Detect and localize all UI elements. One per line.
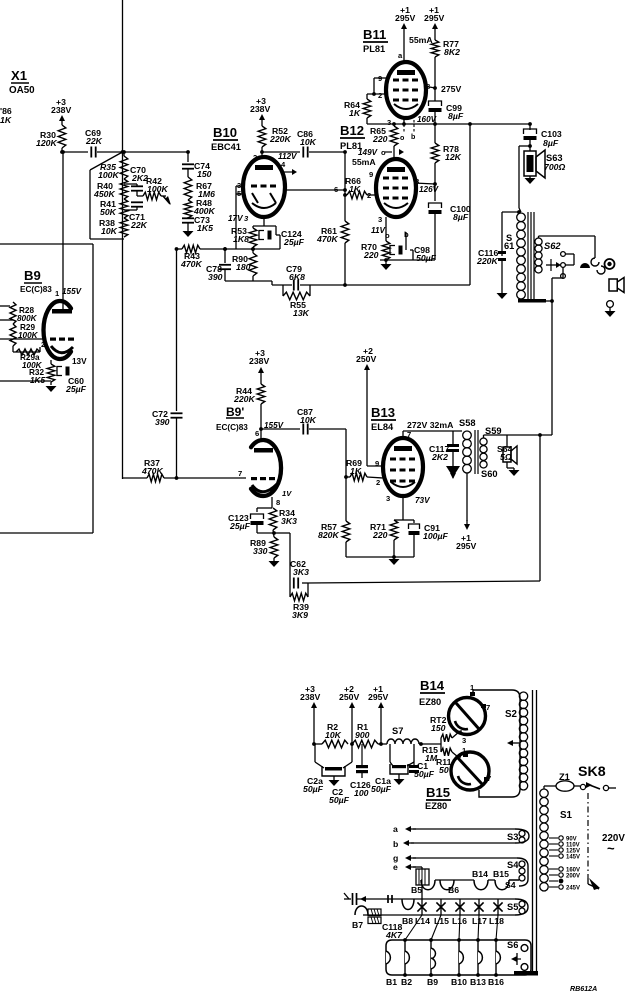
wire B9 plate to R30 node <box>61 150 65 310</box>
pin labels B13 <box>375 459 431 505</box>
svg-text:B13: B13 <box>470 977 486 987</box>
S62 contact bottom <box>561 274 566 279</box>
svg-text:8K2: 8K2 <box>444 47 460 57</box>
resistor R32 1K5 <box>29 364 55 385</box>
supply +3 238V at R30 <box>51 97 71 125</box>
svg-text:160V: 160V <box>417 115 438 124</box>
label 272V 32mA <box>407 420 454 430</box>
wire R37 to B9' pin 7 <box>164 477 246 479</box>
pin 8 and 1V labels <box>276 489 292 507</box>
labels B1 B2 B9 B10 B13 B16 <box>386 977 504 987</box>
wire hatched down <box>421 885 423 899</box>
wire R77 to 275V node <box>434 57 436 101</box>
resistor R44 220K <box>233 377 265 404</box>
coupling coils B5 B6 B14 B15 <box>411 869 519 895</box>
svg-text:b: b <box>393 839 398 849</box>
svg-text:X1: X1 <box>11 68 27 83</box>
svg-text:22K: 22K <box>85 136 103 146</box>
pentode B13 <box>383 438 423 496</box>
svg-text:B9': B9' <box>226 405 244 419</box>
wire to AVC bus corner <box>253 281 272 285</box>
speaker S63 700 ohm <box>524 150 565 178</box>
jack contact arcs <box>591 258 605 274</box>
svg-text:L15: L15 <box>434 916 449 926</box>
svg-text:B12: B12 <box>340 123 364 138</box>
svg-text:L18: L18 <box>489 916 504 926</box>
resistor R61 470K <box>316 221 349 244</box>
svg-text:B11: B11 <box>363 27 386 42</box>
svg-text:50µF: 50µF <box>414 769 435 779</box>
svg-text:EBC41: EBC41 <box>211 142 241 152</box>
wire R15 to B15 <box>458 756 461 758</box>
svg-text:6: 6 <box>255 429 259 438</box>
ground under R89 <box>269 558 280 567</box>
cathode ground rail B12 <box>380 258 435 262</box>
svg-text:3: 3 <box>378 215 382 224</box>
feedback wire to output transformer <box>308 435 540 583</box>
AVC bus wire <box>272 284 470 286</box>
wire pin6 to grid line B12 <box>285 189 345 191</box>
wire pin8 to R77 node <box>424 86 437 90</box>
resistor R52 220K <box>258 124 291 147</box>
tap selector arrow <box>588 878 600 890</box>
resistor R29a 100K <box>16 349 43 370</box>
S5 top line <box>357 896 515 902</box>
svg-text:800K: 800K <box>17 314 38 323</box>
capacitor C99 8uF <box>429 101 464 121</box>
resistor R71 220 <box>370 520 403 557</box>
extension speaker <box>609 278 624 293</box>
resistor R2 10K <box>314 722 348 748</box>
resistor R55 13K <box>283 285 310 318</box>
svg-text:S58: S58 <box>459 418 476 428</box>
svg-text:B13: B13 <box>371 405 395 420</box>
svg-text:B2: B2 <box>401 977 412 987</box>
capacitor C78 390 <box>206 247 231 282</box>
supply +3 238V at R52 <box>250 96 270 124</box>
label B12 <box>340 123 365 151</box>
svg-text:B5: B5 <box>411 885 422 895</box>
svg-text:SK8: SK8 <box>578 764 606 780</box>
svg-text:220: 220 <box>372 134 388 144</box>
wires crosses to band <box>405 915 498 940</box>
ground under S64 <box>507 462 520 476</box>
label 55mA B12 <box>352 157 376 167</box>
svg-text:470K: 470K <box>141 466 163 476</box>
svg-text:EC(C)83: EC(C)83 <box>216 423 248 432</box>
label 11V <box>371 226 386 235</box>
svg-text:8µF: 8µF <box>543 138 559 148</box>
svg-text:295V: 295V <box>424 13 444 23</box>
S2 arrow <box>507 740 520 746</box>
wire pin8 B12 to R78 node <box>414 182 437 186</box>
capacitor C79 6K8 <box>286 264 305 291</box>
wire C103 to S63 <box>528 137 532 151</box>
svg-text:S60: S60 <box>481 469 498 479</box>
label 220V mains <box>602 833 625 856</box>
svg-text:B10: B10 <box>451 977 467 987</box>
svg-text:50µF: 50µF <box>416 253 437 263</box>
svg-text:155V: 155V <box>62 287 83 296</box>
B9 grid wire from left <box>0 338 44 340</box>
svg-text:7: 7 <box>487 774 491 783</box>
resistor R29 100K <box>10 323 39 346</box>
svg-text:EC(C)83: EC(C)83 <box>20 285 52 294</box>
box around B9 stage <box>0 244 93 533</box>
label 55mA top <box>409 35 433 45</box>
svg-text:10K: 10K <box>300 415 317 425</box>
wire to feedback network <box>274 533 290 578</box>
line e <box>393 862 422 872</box>
pentode B11 <box>386 62 426 118</box>
svg-text:B6: B6 <box>448 885 459 895</box>
pins o b B12 bottom <box>385 230 409 240</box>
svg-text:7: 7 <box>486 703 490 712</box>
svg-text:B7: B7 <box>352 920 363 930</box>
svg-text:100: 100 <box>354 788 369 798</box>
svg-text:EZ80: EZ80 <box>419 697 441 707</box>
lamp line a <box>393 824 416 834</box>
label R11 50 <box>436 757 452 775</box>
svg-text:25µF: 25µF <box>65 384 87 394</box>
S6 winding <box>507 940 528 970</box>
S62 bracket <box>566 254 575 265</box>
resistor R28 800K <box>10 302 38 324</box>
resistor R42 100K <box>137 176 168 200</box>
svg-text:b: b <box>411 133 416 141</box>
svg-text:150: 150 <box>197 169 212 179</box>
resistor R64 1K <box>344 94 371 118</box>
coil band B1-B16 <box>386 940 531 975</box>
wire grid line B9' <box>123 477 148 479</box>
svg-text:S1: S1 <box>560 810 573 821</box>
resistor R37 470K <box>141 458 164 482</box>
wire cathode to R32 <box>50 360 52 364</box>
wire B10 cathode down <box>253 217 276 231</box>
resistor R15 1M <box>422 744 458 763</box>
svg-text:8µF: 8µF <box>453 212 469 222</box>
svg-text:EZ80: EZ80 <box>425 801 447 811</box>
svg-text:L17: L17 <box>472 916 487 926</box>
capacitor C62 3K3 <box>290 559 309 589</box>
svg-text:3K9: 3K9 <box>292 610 308 620</box>
wire C99 to bus <box>433 109 437 126</box>
svg-text:200V: 200V <box>566 874 580 880</box>
svg-text:50µF: 50µF <box>371 784 392 794</box>
supply +2 250V <box>356 346 376 374</box>
svg-text:3K3: 3K3 <box>293 567 309 577</box>
svg-text:S6: S6 <box>507 940 518 950</box>
resistor R89 330 <box>250 537 278 558</box>
svg-text:B1: B1 <box>386 977 397 987</box>
wire S61 secondary top to S62 <box>539 236 596 258</box>
capacitor C74 150 <box>182 150 212 179</box>
coil B7 <box>352 906 368 930</box>
line g <box>393 853 517 863</box>
svg-text:238V: 238V <box>250 104 270 114</box>
svg-text:e: e <box>393 862 398 872</box>
mains dash-dot line <box>587 793 589 878</box>
coil band bumps <box>386 948 500 969</box>
wire R52 to tube and C86 <box>253 147 300 162</box>
label R86 1K (cut off at edge) <box>0 106 12 125</box>
transformer S2 winding <box>519 692 527 790</box>
wire C72 to grid line <box>175 418 179 480</box>
label C118 4K7 <box>382 922 403 940</box>
bus wire 160V line <box>367 122 530 126</box>
svg-text:1K: 1K <box>349 184 361 194</box>
capacitor C100 8uF <box>429 184 471 222</box>
svg-text:25µF: 25µF <box>229 521 251 531</box>
wire pin2 to R64 <box>367 92 386 96</box>
wire R30 to C69 <box>60 148 88 154</box>
svg-text:145V: 145V <box>566 855 580 861</box>
svg-text:8µF: 8µF <box>448 111 464 121</box>
label 149V <box>358 148 379 157</box>
label B10 <box>211 125 241 152</box>
capacitor C2a 50uF <box>303 766 345 794</box>
svg-text:B9: B9 <box>24 268 41 283</box>
svg-text:3: 3 <box>387 118 391 127</box>
bracket pins 3/5 <box>236 186 243 249</box>
svg-text:B16: B16 <box>488 977 504 987</box>
capacitor C86 10K <box>297 129 317 158</box>
svg-text:100µF: 100µF <box>423 531 449 541</box>
svg-text:EL84: EL84 <box>371 422 394 432</box>
svg-text:450K: 450K <box>93 189 115 199</box>
pin labels 3 5 6 B10 <box>237 181 338 198</box>
label B9 <box>20 268 52 294</box>
capacitor C60 25uF <box>51 367 87 395</box>
wire S4 bumps line <box>421 879 422 881</box>
svg-text:6K8: 6K8 <box>289 272 305 282</box>
svg-text:55mA: 55mA <box>352 157 376 167</box>
capacitor C70 2K2 <box>124 165 148 191</box>
resistor R48 400K <box>184 198 215 218</box>
svg-text:150: 150 <box>431 723 446 733</box>
svg-text:73V: 73V <box>415 496 431 505</box>
svg-text:50µF: 50µF <box>329 795 350 805</box>
resistor R38 10K <box>99 218 128 237</box>
wire +1 to B11 plate <box>398 33 404 62</box>
capacitor C2 50uF label <box>329 787 350 805</box>
svg-text:Z1: Z1 <box>559 772 570 782</box>
capacitor C116 220K <box>476 248 506 293</box>
wire R43 to cathode node <box>200 247 280 251</box>
capacitor C87 10K <box>297 407 317 435</box>
label B11 <box>363 27 388 54</box>
transformer S61 core <box>528 212 534 301</box>
label SK8 <box>578 764 606 780</box>
wire +2 down <box>350 712 354 746</box>
cathode rail B13 <box>346 555 414 559</box>
svg-text:2K2: 2K2 <box>431 452 448 462</box>
rectifier B14 <box>449 692 487 735</box>
S62 wiper arrow <box>546 259 561 271</box>
supply +1 295V psu <box>368 684 388 712</box>
capacitor C117 2K2 <box>429 431 459 466</box>
svg-text:1K5: 1K5 <box>197 223 213 233</box>
fuse Z1 <box>556 772 574 791</box>
wire C86 to B12 grid line <box>309 151 345 153</box>
label B15 <box>425 785 451 811</box>
svg-text:50µF: 50µF <box>303 784 324 794</box>
wire R57 to rail <box>345 542 347 557</box>
capacitor C1a/C1 frame <box>390 744 414 766</box>
label B14 <box>419 678 445 707</box>
wire R65 to B12 plate <box>393 146 395 160</box>
svg-text:B15: B15 <box>493 869 509 879</box>
wire +3 down <box>312 712 316 746</box>
label S2 <box>505 709 518 720</box>
svg-text:17V: 17V <box>228 214 244 223</box>
svg-text:2: 2 <box>41 340 45 349</box>
wire right vertical to AVC <box>468 122 472 285</box>
resistor R1 900 <box>352 722 378 748</box>
wire plate to S58 <box>403 430 462 439</box>
svg-text:PL81: PL81 <box>363 44 385 54</box>
supply +3 238V at R44 <box>249 348 269 377</box>
wire R64 to bus <box>366 118 368 124</box>
label 155V at B9 plate <box>55 287 83 298</box>
svg-text:B9: B9 <box>427 977 438 987</box>
svg-text:13K: 13K <box>293 308 310 318</box>
resistor RT2 150 <box>430 715 460 744</box>
svg-text:S62: S62 <box>544 241 561 251</box>
svg-text:B14: B14 <box>472 869 488 879</box>
hatched component <box>416 869 429 885</box>
svg-text:238V: 238V <box>249 356 269 366</box>
resistor R70 220 <box>361 241 390 260</box>
switch SK8 blade <box>586 782 600 789</box>
svg-text:2: 2 <box>376 478 380 487</box>
svg-text:RB612A: RB612A <box>570 985 597 993</box>
lamp line b <box>393 839 414 849</box>
resistor R57 820K <box>318 521 350 542</box>
wire +2 to screen <box>367 374 384 466</box>
wire grid to divider <box>13 346 40 352</box>
supply +3 238V psu <box>300 684 320 712</box>
svg-text:245V: 245V <box>566 886 580 892</box>
svg-text:S5: S5 <box>507 902 518 912</box>
wire pot top <box>122 150 126 156</box>
svg-text:238V: 238V <box>300 692 320 702</box>
svg-text:22K: 22K <box>130 220 148 230</box>
S5 bottom line <box>363 914 515 916</box>
wire cathode B9' <box>271 497 273 508</box>
coil B8 <box>402 899 414 926</box>
resistor R41 50K <box>100 199 128 218</box>
capacitor C98 50uF <box>390 232 437 263</box>
capacitor C126 100 <box>350 744 371 798</box>
svg-text:275V: 275V <box>441 84 461 94</box>
svg-text:S7: S7 <box>392 726 403 736</box>
resistor R43 470K <box>177 245 203 269</box>
resistor R53 1K8 <box>231 226 257 247</box>
svg-text:~: ~ <box>607 841 615 856</box>
choke S7 <box>378 726 423 746</box>
wire R43 node down to C72 <box>176 249 178 411</box>
ground under C116 <box>497 293 508 299</box>
svg-text:2: 2 <box>378 91 382 100</box>
svg-text:50K: 50K <box>100 207 117 217</box>
svg-text:4K7: 4K7 <box>385 930 403 940</box>
svg-text:295V: 295V <box>456 541 476 551</box>
wire S1 top to Z1 <box>544 786 556 789</box>
wire S59 top <box>484 433 553 438</box>
pin labels B11 <box>378 74 430 127</box>
B9 bottom wire to left edge <box>0 380 51 382</box>
wire C100 down <box>434 211 436 260</box>
ground under S63 <box>525 176 536 184</box>
wire grid node down <box>345 477 347 521</box>
svg-text:390: 390 <box>155 417 170 427</box>
pentode B12 <box>376 159 416 217</box>
svg-text:o: o <box>400 134 405 142</box>
pin 7 label B9' <box>238 469 242 478</box>
ground B13 cathode <box>389 557 400 565</box>
rectifier B15 <box>451 752 489 790</box>
svg-text:900: 900 <box>355 730 370 740</box>
capacitor C123 25uF <box>228 508 272 531</box>
transformer S58 primary <box>459 418 476 473</box>
svg-text:100K: 100K <box>147 184 168 194</box>
coil band dividers <box>403 938 498 977</box>
wire bus to C103 corner <box>528 122 532 130</box>
antenna input <box>344 893 357 905</box>
label 275V <box>441 84 461 94</box>
wire B12 grid vertical <box>343 150 347 221</box>
ground B12 cathode <box>381 260 392 270</box>
svg-text:1K8: 1K8 <box>233 234 249 244</box>
svg-text:470K: 470K <box>180 259 202 269</box>
transformer S61 secondary <box>535 238 542 273</box>
switch crosses L14-L18 <box>415 899 504 926</box>
pin 4 arrow <box>281 160 297 175</box>
transformer S58 secondary S59 S60 <box>480 426 502 479</box>
extension jack circle <box>607 301 614 308</box>
svg-text:55mA: 55mA <box>409 35 433 45</box>
svg-text:S3: S3 <box>507 832 518 842</box>
wire R90 bottom <box>225 276 253 281</box>
S4 coupling line <box>422 879 434 881</box>
ground C2 <box>329 776 340 786</box>
wire to C74/B10 grid <box>123 151 189 153</box>
label 126V <box>419 185 440 194</box>
wire cathode node <box>251 247 255 251</box>
wire +1 down <box>379 712 383 746</box>
label 17V pin 3 <box>228 214 249 223</box>
capacitor C124 25uF <box>259 229 305 249</box>
wire R61 to AVC bus <box>343 243 347 287</box>
svg-text:100K: 100K <box>98 170 119 180</box>
label RB612A <box>570 985 597 993</box>
triode B9' (half symbol) <box>251 440 281 496</box>
pins B14 <box>462 683 490 745</box>
S62 contact mid <box>561 263 566 268</box>
ground under R32 <box>46 386 57 392</box>
resistor R78 12K <box>431 124 461 184</box>
svg-text:S2: S2 <box>505 709 518 720</box>
S61 bottom lead <box>518 299 552 303</box>
wiper arrow into chain <box>161 196 171 205</box>
mains transformer core <box>514 690 538 976</box>
capacitor C1 50uF <box>409 761 435 779</box>
svg-text:13V: 13V <box>72 357 87 366</box>
label B9' <box>216 405 248 432</box>
stub wires at left edge of B9 <box>0 306 13 320</box>
pin o arrow B12 <box>381 148 404 157</box>
